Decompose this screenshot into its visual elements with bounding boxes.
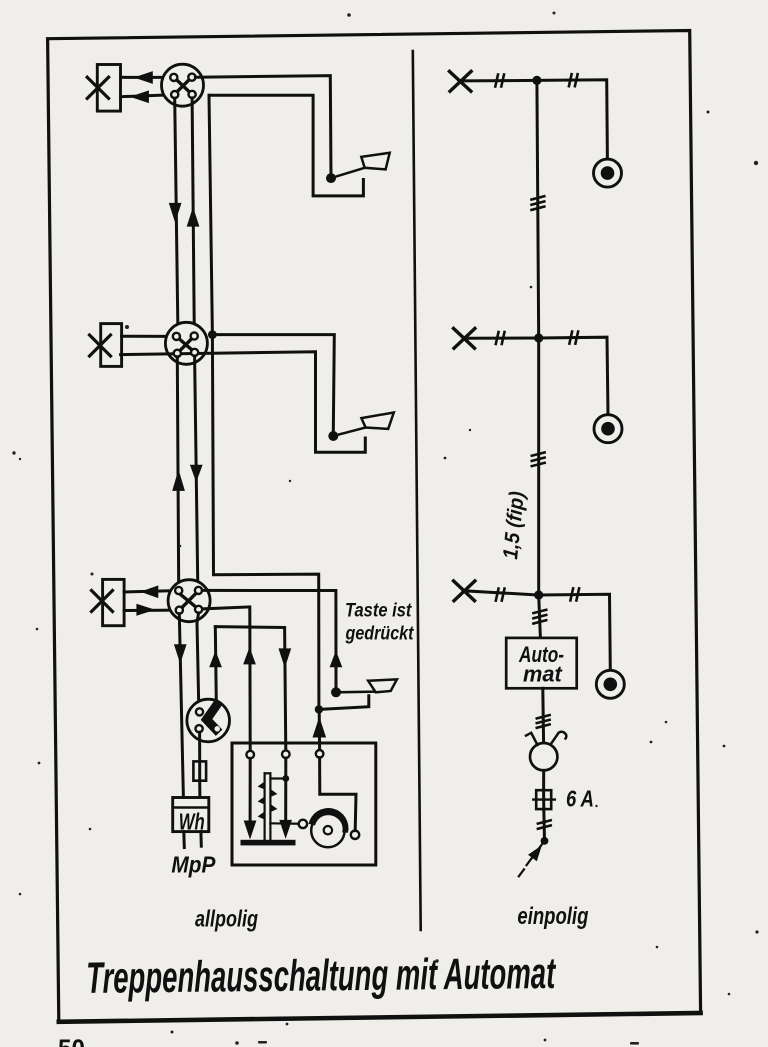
- svg-text:Taste ist: Taste ist: [345, 601, 412, 622]
- wire timer branch horizontal to automat terminal 2: [215, 625, 284, 629]
- fuse F1: [193, 761, 206, 780]
- wire lamp E3 bottom feed with right arrow: [124, 604, 175, 616]
- wire A3 to automat terminal 1 with up arrow: [203, 607, 256, 751]
- wire timer to fuse: [198, 732, 201, 761]
- conductor ticks pair: [496, 332, 505, 344]
- svg-text:50: 50: [58, 1034, 85, 1047]
- lamp fixture E2 (middle left box): [90, 324, 122, 367]
- lamp symbol E6 (einpolig floor 3): [454, 581, 475, 601]
- svg-text:allpolig: allpolig: [195, 906, 258, 932]
- wire S3 return stub to junction node: [319, 696, 369, 710]
- wire terminal 2 down with node and arrow to platform: [279, 758, 292, 839]
- conductor ticks pair: [569, 332, 578, 344]
- conductor ticks triple: [532, 452, 545, 466]
- motor M with brush arc: [309, 808, 349, 847]
- automat terminal 1: [246, 751, 254, 759]
- wire riser N2-N3: [537, 338, 540, 595]
- wire E4 to node N1: [461, 79, 537, 83]
- wire riser A2-A3 right with down arrow: [190, 356, 203, 587]
- timer switch U1 (circle with contact blob): [187, 699, 230, 742]
- wire A3 down to meter Wh with down arrow: [174, 614, 187, 798]
- push button S2 (floor 2): [328, 413, 394, 442]
- wire riser A1-A2 right with up arrow: [187, 98, 200, 323]
- junction box A2: [165, 322, 207, 364]
- incoming supply arrow: [519, 841, 545, 876]
- wire riser A2-A3 left with up arrow: [172, 357, 185, 587]
- wire down to automat terminal 2 with down arrow: [279, 628, 292, 751]
- svg-text:MpP: MpP: [171, 852, 216, 878]
- node N1: [532, 76, 541, 85]
- push button S3 pressed (Taste ist gedrueckt): [331, 679, 397, 697]
- wire N3 down to Automat box: [539, 595, 541, 638]
- push button B3: [596, 670, 624, 698]
- svg-text:Wh: Wh: [179, 809, 205, 835]
- svg-text:gedrückt: gedrückt: [345, 623, 414, 644]
- wire third riser (S1 return down to level3 corner and PB3 branch): [209, 95, 319, 709]
- wire Automat to meter: [541, 688, 545, 743]
- wire A3 to timer switch: [197, 613, 199, 709]
- svg-text:mat: mat: [523, 662, 563, 687]
- push button B1 (circle with dot): [594, 159, 622, 187]
- junction box A3: [168, 580, 210, 622]
- junction box A2 cross and terminals: [173, 332, 198, 357]
- wire E5 to node N2: [464, 337, 539, 340]
- wire rod to terminal2 node: [270, 777, 285, 779]
- wire meter to fuse: [542, 770, 545, 790]
- svg-text:6 A: 6 A: [566, 786, 594, 812]
- wire E6 to node N3: [464, 591, 539, 595]
- wire N1 to button B1: [537, 80, 608, 160]
- motor right terminal: [351, 831, 359, 839]
- junction node below S3: [315, 705, 323, 713]
- wire S1 return to riser (stub, down, left, up, left): [209, 95, 363, 196]
- conductor ticks triple: [532, 196, 545, 210]
- frame bottom edge thicker: [59, 1013, 701, 1022]
- motor left terminal: [299, 820, 307, 828]
- wire Wh bottom left (Mp): [182, 832, 186, 848]
- wire lamp E1 top feed with left arrow: [121, 71, 171, 84]
- wire node to push button S2: [212, 335, 334, 432]
- automat terminal 2: [282, 750, 290, 758]
- wire lamp E2 top feed: [122, 335, 173, 338]
- wire N3 to button B3: [539, 594, 611, 670]
- wire A1 to push button S1 (top horizontal + down): [195, 76, 331, 179]
- node on riser feeding S2: [208, 330, 217, 339]
- push button B2: [594, 415, 622, 443]
- wire lamp E2 bottom through-wire to S2 loop: [121, 352, 366, 452]
- wire A3 to push button S3 vertical with up arrow: [202, 590, 342, 687]
- lamp fixture E1 (top left box): [87, 65, 120, 112]
- conductor ticks triple: [533, 610, 546, 624]
- lamp symbol E4 (einpolig floor 1): [449, 71, 471, 91]
- meter circle with spring horns: [526, 732, 566, 771]
- wire rod to motor left terminal: [270, 822, 299, 825]
- divider line between allpolig and einpolig: [413, 51, 421, 930]
- conductor ticks pair: [496, 589, 505, 601]
- wire fuse to supply: [542, 809, 546, 841]
- wire terminal 3 to motor right terminal: [320, 758, 356, 831]
- conductor ticks pair: [570, 588, 579, 600]
- push button S1 (floor 1): [326, 153, 390, 183]
- wire lamp E1 bottom feed with left arrow: [121, 90, 172, 103]
- wire terminal 1 down with arrow to platform: [244, 758, 257, 839]
- automat terminal 3: [316, 750, 324, 758]
- wire riser A1-A2 left with down arrow: [169, 98, 182, 322]
- wire down to timer with up arrow: [209, 627, 222, 703]
- wire node to automat terminal 3 with up arrow: [313, 710, 327, 751]
- wire lamp E3 top feed with left arrow: [124, 585, 175, 598]
- meter Wh box: [173, 798, 209, 832]
- conductor ticks triple: [537, 715, 550, 728]
- junction box A1: [162, 64, 204, 106]
- supply node: [541, 837, 549, 845]
- conductor ticks pair: [569, 74, 578, 86]
- wire N2 to button B2: [539, 337, 608, 415]
- svg-text:Treppenhausschaltung mit Autom: Treppenhausschaltung mit Automat: [86, 949, 557, 1003]
- lamp symbol E5 (einpolig floor 2): [454, 328, 475, 348]
- platform bar: [241, 840, 296, 846]
- wire Wh bottom right (P): [199, 832, 202, 847]
- svg-text:einpolig: einpolig: [517, 903, 588, 930]
- node N3: [534, 590, 543, 599]
- wire riser N1-N2: [537, 80, 539, 338]
- wire fuse to meter: [198, 781, 201, 798]
- fuse F2 (6A): [533, 790, 555, 809]
- automat mechanism box: [232, 743, 376, 865]
- Automat box (einpolig): [506, 638, 577, 688]
- lamp fixture E3 (bottom left box): [92, 579, 125, 625]
- spindle rod with spiral barbs: [258, 773, 278, 840]
- node N2: [534, 333, 543, 342]
- conductor ticks pair: [538, 820, 551, 829]
- conductor ticks pair: [495, 75, 504, 87]
